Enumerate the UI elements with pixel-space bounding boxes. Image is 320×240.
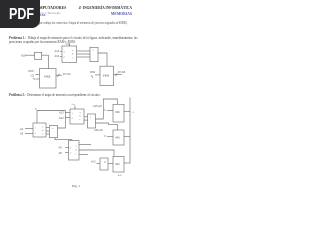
svg-text:c: c [76,154,78,156]
svg-text:b: b [72,54,74,56]
svg-text:A13: A13 [55,54,60,58]
svg-text:R/W: R/W [90,70,96,74]
svg-text:A2: A2 [20,127,24,131]
svg-text:1: 1 [64,52,66,54]
svg-text:64K: 64K [115,135,120,139]
svg-text:D7-D0: D7-D0 [63,72,71,76]
svg-text:A14: A14 [55,49,60,53]
svg-text:c: c [80,119,82,121]
svg-text:2: 2 [72,118,74,120]
svg-text:a: a [52,128,54,130]
svg-text:64K: 64K [115,162,120,166]
svg-text:F: F [105,108,107,112]
svg-text:F: F [105,160,107,164]
svg-text:a: a [80,112,82,114]
svg-text:2: 2 [64,57,66,59]
svg-text:A12: A12 [59,116,64,120]
svg-text:R/W: R/W [29,69,35,73]
svg-text:A13: A13 [59,111,64,115]
svg-text:b: b [42,130,44,132]
svg-text:A3: A3 [20,132,24,136]
svg-text:a: a [93,50,95,52]
svg-text:A8: A8 [59,151,63,155]
svg-text:CS: CS [31,74,35,78]
svg-text:a: a [72,50,74,52]
svg-text:F: F [105,134,107,138]
svg-text:c: c [42,134,44,136]
svg-text:A D: A D [118,174,122,177]
svg-text:A-D: A-D [91,160,96,164]
svg-text:c: c [72,57,74,59]
svg-text:Vcc: Vcc [66,42,71,46]
svg-text:A15-A0: A15-A0 [93,104,102,108]
svg-text:64KB: 64KB [103,74,110,78]
svg-text:1: 1 [35,128,37,130]
svg-text:64KB: 64KB [44,75,51,79]
svg-text:b: b [76,150,78,152]
svg-text:1: 1 [72,113,74,115]
svg-text:2: 2 [35,133,37,135]
svg-text:a: a [90,117,92,119]
svg-text:A: A [35,108,37,111]
svg-text:D: D [133,112,135,114]
svg-text:64K: 64K [115,110,120,114]
svg-text:a: a [42,127,44,129]
svg-text:a: a [76,146,78,148]
svg-text:Vcc: Vcc [72,104,77,106]
svg-text:1: 1 [70,148,72,150]
svg-text:b: b [80,116,82,118]
svg-text:D7-D0: D7-D0 [118,70,126,74]
svg-text:A15-A0: A15-A0 [94,128,103,132]
svg-text:2: 2 [70,153,72,155]
svg-text:A9: A9 [59,146,63,150]
